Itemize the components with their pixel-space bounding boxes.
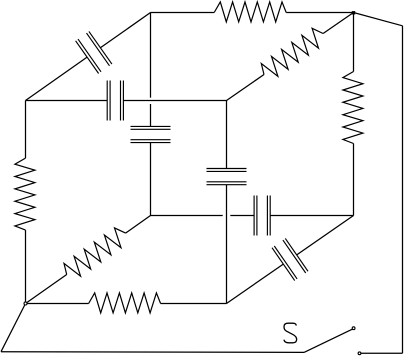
- capacitor C3 (front top edge): [26, 100, 108, 102]
- capacitor C2 (back left edge): [150, 13, 152, 98]
- junction dot at node BTR: [352, 11, 355, 14]
- capacitor C6 (back-bottom-right to front-bottom-right diagonal): [297, 216, 354, 255]
- switch S lever arm: [304, 329, 352, 352]
- capacitor C4 (back bottom edge): [151, 215, 223, 217]
- wire top-right slant to node BTR: [354, 13, 403, 26]
- wire bottom rail: [1, 351, 304, 354]
- resistor R6 (front bottom edge): [26, 303, 89, 305]
- resistor R3 (back right edge): [353, 13, 355, 72]
- wire right rail: [402, 26, 404, 354]
- resistor R4 (front left edge): [25, 101, 27, 159]
- wire from node FBL down-left to bottom rail: [1, 304, 26, 352]
- switch S fixed-contact terminal: [358, 352, 361, 355]
- resistor R1 (back top edge): [151, 12, 215, 14]
- resistor R5 (back-bottom-left to front-bottom-left diagonal): [126, 216, 151, 234]
- capacitor C5 (front right edge): [226, 101, 228, 169]
- label S for switch: [284, 323, 297, 343]
- switch S open-contact terminal: [352, 327, 355, 330]
- wire bottom-right rail: [361, 352, 403, 354]
- resistor R2 (back-top-right to front-top-right diagonal): [323, 13, 353, 34]
- junction ring at node FBL: [24, 302, 27, 305]
- capacitor C1 (back-top-left to front-top-left diagonal): [100, 13, 150, 48]
